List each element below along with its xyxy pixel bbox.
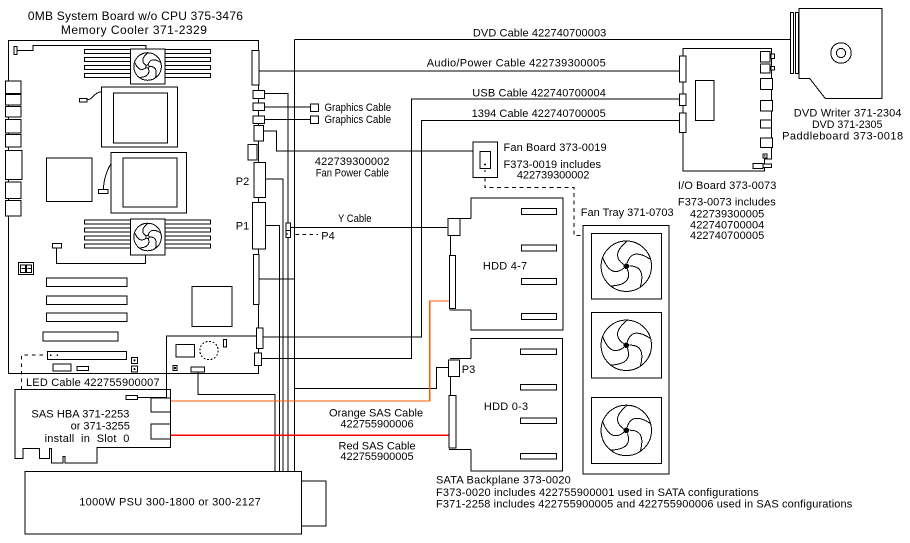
wire P3 branch [295,367,449,388]
PSU side tab [301,481,326,526]
left edge connector stack [6,81,23,216]
PCI slot 1 [47,278,128,287]
right edge connector 2 (graphics) [253,103,264,111]
HDD 0-3 SAS strip [449,396,456,449]
svg-text:SAS HBA 371-2253: SAS HBA 371-2253 [31,408,129,420]
svg-text:422740700005: 422740700005 [690,230,764,242]
motherboard outline [9,41,259,374]
dashed link fan board to fan tray [485,178,583,236]
LED jumper square 2 [132,366,138,372]
wire LED cable link [138,371,167,397]
HDD 4-7 SAS strip [449,256,455,309]
svg-text:DVD Cable 422740700003: DVD Cable 422740700003 [473,28,606,40]
fan board inner [480,151,490,168]
svg-text:HDD 4-7: HDD 4-7 [483,260,527,272]
wire P1 power [266,225,280,471]
svg-text:SATA Backplane 373-0020: SATA Backplane 373-0020 [436,475,571,487]
svg-text:DVD 371-2305: DVD 371-2305 [812,119,882,131]
wire sub-board power [198,372,275,472]
svg-text:1000W PSU 300-1800 or 300-2127: 1000W PSU 300-1800 or 300-2127 [79,497,261,509]
sub-board small rect [223,340,226,347]
svg-text:Y Cable: Y Cable [338,213,372,225]
svg-text:Graphics Cable: Graphics Cable [325,102,392,114]
right edge connector 4 (fan power) [254,126,263,141]
HDD 4-7 Y connector [448,218,471,220]
right edge connector: top tall [252,51,259,85]
svg-text:or 371-3255: or 371-3255 [71,421,130,433]
I/O board left connector 1 [680,56,687,82]
memory cooler 2 heatsink fins left [84,220,130,248]
svg-text:P3: P3 [462,364,475,376]
small board rect 1 [53,364,71,371]
dashed LED cable path [21,355,58,390]
fan tray fan 2 [591,313,661,379]
svg-text:LED Cable 422755900007: LED Cable 422755900007 [26,377,160,389]
HDD 4-7 drive slots [521,209,556,215]
svg-text:Memory Cooler 371-2329: Memory Cooler 371-2329 [61,23,207,37]
svg-text:422755900005: 422755900005 [340,451,413,463]
wire from top-left connector to memory cooler fan [17,45,146,50]
HBA LED header [126,395,138,399]
HDD 4-7 connector link [449,236,451,256]
right edge connector 5 [248,144,257,160]
svg-text:1394 Cable 422740700005: 1394 Cable 422740700005 [472,108,606,120]
wire thin header branch [259,278,295,280]
dashed P4 pointer [295,233,318,235]
PCI slot 3 [47,313,128,322]
wire DVD cable vertical trunk [294,40,296,472]
thermistor 1 [79,98,87,102]
HDD 4-7 backplane outline [471,198,563,330]
wire graphics cable 2 [265,119,311,121]
memory cooler 1 fan box [130,49,165,84]
I/O board left connector 2 [680,94,687,106]
HBA SAS connector 2 [151,424,170,439]
right edge connector 1 (to P4 trunk) [253,90,264,98]
red SAS cable [171,434,449,436]
top-left small connector [14,47,17,55]
svg-text:Fan Board 373-0019: Fan Board 373-0019 [504,142,607,154]
DVD writer body [799,9,882,99]
svg-text:P2: P2 [236,176,249,188]
I/O board bottom connectors [753,164,763,169]
I/O board right connector 2 [760,64,770,73]
sub-board chip [176,344,194,357]
svg-text:Fan Power Cable: Fan Power Cable [316,167,389,179]
orange SAS cable [171,301,450,401]
svg-text:0MB System Board w/o CPU 375-3: 0MB System Board w/o CPU 375-3476 [28,9,243,23]
wire P4 trunk lower [287,238,289,472]
sub-board LED square [173,366,177,371]
wire USB cable [262,99,680,359]
I/O board right connector 6 [761,138,773,148]
I/O board outline [683,48,771,171]
CPU 2 heatsink outer [111,152,186,213]
CPU 2 inner [123,158,177,207]
I/O board chip [696,81,715,121]
memory cooler 1 fan [133,52,161,80]
svg-text:P4: P4 [321,230,334,242]
wire DVD cable horizontal [295,39,792,41]
svg-text:P1: P1 [236,221,249,233]
HDD 0-3 drive slots [521,349,557,355]
connector B (USB) [254,353,261,366]
DVD writer front plates [791,13,794,74]
wire fan power cable [264,131,474,151]
PCI slot 2 [47,296,128,305]
HBA SAS connector 1 [151,398,170,412]
wire Y cable to HDD4-7 [291,226,448,228]
PSU box [25,472,301,534]
svg-text:F371-2258 includes 42275590000: F371-2258 includes 422755900005 and 4227… [436,499,853,511]
DVD writer spindle [831,43,851,63]
svg-text:Fan Tray 371-0703: Fan Tray 371-0703 [581,207,674,219]
svg-text:Paddleboard 373-0018: Paddleboard 373-0018 [782,131,903,143]
thin pin header [253,255,259,305]
sub-board dotted circle [200,341,218,359]
connector P2 [254,163,265,198]
svg-text:Graphics Cable: Graphics Cable [325,114,392,126]
CPU 1 inner [114,93,168,143]
svg-text:422739300002: 422739300002 [315,156,390,168]
svg-text:F373-0073 includes: F373-0073 includes [678,197,776,209]
memory cooler 2 heatsink fins right [165,220,210,248]
P4 connector [286,223,291,231]
wire audio/power cable [259,70,680,72]
graphics cable square 2 [310,116,318,124]
small board rect 2 [77,366,89,370]
graphics cable square 1 [310,104,318,112]
LED jumper square 1 [132,357,138,363]
I/O board right connector 4 [761,100,773,111]
I/O board right connector 3 [761,79,773,90]
thermistor 2 [99,189,108,193]
svg-text:DVD Writer 371-2304: DVD Writer 371-2304 [794,107,902,119]
LED display [19,263,34,275]
wire P2 power [266,179,284,471]
sub-board connector [191,367,204,372]
memory cooler 1 heatsink fins left [84,49,130,77]
memory cooler 2 fan box [130,219,165,255]
thermistor cooler 2 [52,244,61,248]
wire graphics cable 1 [265,106,311,108]
svg-text:422739300002: 422739300002 [517,170,590,182]
fan board outline [473,142,497,177]
PCI slot 4 [43,332,118,341]
I/O board right connector 1 [760,51,770,62]
svg-text:F373-0020 includes 42275590000: F373-0020 includes 422755900001 used in … [436,487,759,499]
plain chip square [47,158,92,201]
wire 1394 cable [263,121,680,338]
fan tray fan 3 [591,397,661,463]
connector A (1394) [256,328,263,349]
svg-text:422755900006: 422755900006 [340,419,413,431]
right edge connector 3 (graphics) [253,116,264,124]
I/O board tiny square [763,154,767,158]
fan tray outline [583,226,669,475]
memory cooler 2 fan [133,222,161,250]
svg-text:install in Slot 0: install in Slot 0 [45,433,130,445]
I/O board left connector 3 [680,113,687,132]
PCI slot 5 long [48,351,127,359]
sub-board outline [166,336,256,372]
southbridge chip [192,287,232,327]
wire P4 trunk upper [264,93,288,223]
connector P1 [253,202,266,249]
HDD 0-3 connector link [450,377,452,396]
I/O board right connector 5 [761,120,772,128]
fan tray fan 1 [591,233,661,299]
svg-text:HDD 0-3: HDD 0-3 [484,401,528,413]
svg-text:USB Cable 422740700004: USB Cable 422740700004 [472,88,606,100]
memory cooler 1 heatsink fins right [165,49,210,77]
svg-text:Audio/Power Cable 422739300005: Audio/Power Cable 422739300005 [427,58,606,70]
svg-text:I/O Board 373-0073: I/O Board 373-0073 [678,180,777,192]
HDD 0-3 backplane outline [471,338,563,471]
CPU 1 heatsink outer [101,87,177,147]
SAS HBA outline with PCI bracket [15,389,170,463]
HDD 0-3 P3 connector [449,360,460,377]
